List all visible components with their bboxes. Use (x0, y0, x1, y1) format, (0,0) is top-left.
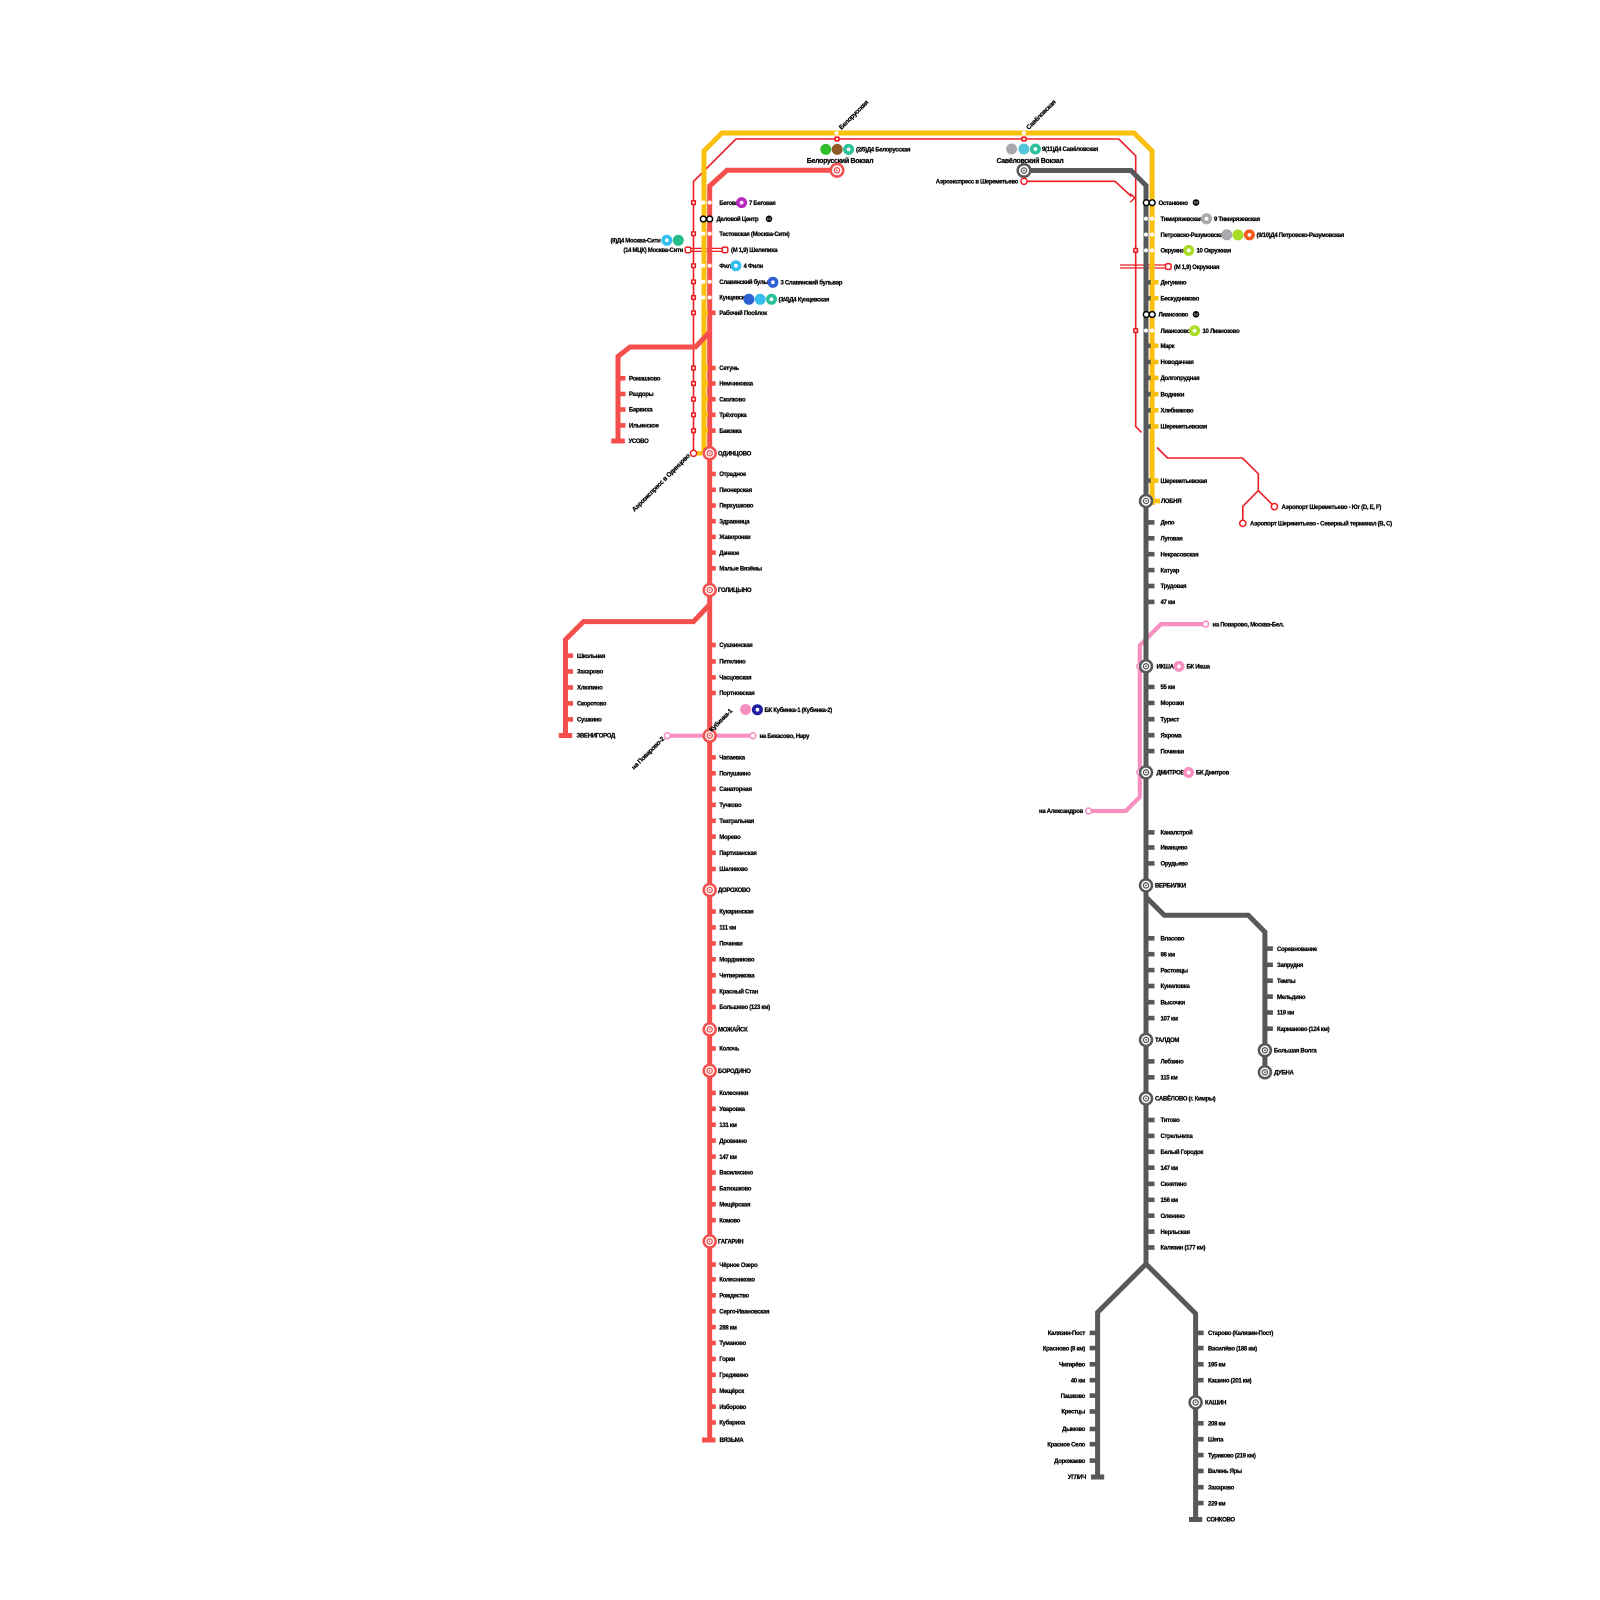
svg-text:Власово: Власово (1161, 937, 1185, 943)
svg-text:Калязин-Пост: Калязин-Пост (1048, 1331, 1086, 1337)
svg-text:Здравница: Здравница (719, 519, 750, 525)
svg-text:Трудовая: Трудовая (1161, 584, 1188, 590)
station MOZHAYSK (704, 1023, 748, 1035)
station Растовцы (1146, 968, 1188, 975)
station KUBINKA-1 (704, 730, 716, 742)
station Каналстрой (1146, 830, 1193, 837)
svg-text:Карманово (124 км): Карманово (124 км) (1277, 1027, 1330, 1033)
station DUBNA (1259, 1066, 1295, 1078)
station Петровско-Разумовская (1144, 233, 1227, 239)
svg-text:Колесники: Колесники (719, 1091, 748, 1097)
svg-text:40 км: 40 км (1071, 1378, 1086, 1384)
svg-text:Калязин (177 км): Калязин (177 км) (1161, 1246, 1206, 1252)
svg-text:Стрельчиха: Стрельчиха (1161, 1134, 1194, 1140)
svg-text:Сетунь: Сетунь (719, 366, 739, 372)
station Мещёрская (709, 1202, 751, 1209)
svg-text:Дорожаево: Дорожаево (1054, 1459, 1085, 1465)
station Изборово (709, 1404, 747, 1411)
svg-text:3 Славянский бульвар: 3 Славянский бульвар (781, 280, 843, 287)
station Мельдино (1265, 994, 1306, 1001)
svg-text:156 км: 156 км (1161, 1198, 1179, 1204)
svg-text:Титово: Титово (1161, 1118, 1181, 1124)
svg-text:ВЯЗЬМА: ВЯЗЬМА (720, 1438, 745, 1444)
station Петелино (709, 659, 747, 666)
svg-text:Яхрома: Яхрома (1161, 733, 1183, 739)
svg-text:БК Дмитров: БК Дмитров (1196, 771, 1230, 777)
svg-text:Тимирязевская: Тимирязевская (1161, 217, 1203, 223)
station Кукаринская (709, 909, 755, 916)
svg-text:Портновская: Портновская (719, 691, 755, 697)
station Беговая (691, 200, 742, 207)
svg-text:Четверикова: Четверикова (719, 973, 755, 979)
svg-text:ГАГАРИН: ГАГАРИН (718, 1240, 743, 1246)
svg-text:Красный Стан: Красный Стан (719, 988, 758, 995)
svg-text:Василисино: Василисино (719, 1171, 753, 1177)
station Оленино (1146, 1213, 1185, 1220)
station Валень Яры (1196, 1469, 1242, 1476)
svg-text:Петелино: Петелино (719, 660, 746, 666)
Zvenigorod branch (red) (566, 605, 710, 734)
Savyolovsky Vokzal station circle (1018, 164, 1031, 177)
svg-text:Большево (123 км): Большево (123 км) (719, 1005, 770, 1011)
station Серго-Ивановская (709, 1309, 770, 1316)
svg-text:Мельдино: Мельдино (1277, 995, 1306, 1001)
svg-text:Театральная: Театральная (719, 819, 754, 825)
svg-text:Орудьево: Орудьево (1161, 862, 1189, 868)
station Соревнование (1265, 946, 1318, 953)
svg-text:Сколково: Сколково (719, 397, 746, 403)
svg-text:Дровнино: Дровнино (719, 1139, 747, 1145)
station Иванцево (1146, 845, 1188, 852)
station Кунцевская (691, 295, 752, 302)
svg-text:ДМИТРОВ: ДМИТРОВ (1157, 771, 1186, 777)
svg-text:Куниловка: Куниловка (1161, 984, 1191, 990)
station Темпы (1265, 978, 1296, 985)
D1 stop Belorusskaya (white dot on yellow) (835, 131, 839, 135)
svg-text:ТАЛДОМ: ТАЛДОМ (1155, 1038, 1179, 1044)
svg-text:Растовцы: Растовцы (1161, 968, 1188, 974)
station 98 км (1146, 952, 1176, 959)
station Тимирязевская (1144, 217, 1203, 223)
station Василёво (186 км) (1196, 1346, 1258, 1353)
svg-text:Дымово: Дымово (1062, 1427, 1086, 1433)
svg-text:115 км: 115 км (1161, 1076, 1179, 1082)
station Дегунино (1146, 280, 1187, 287)
airport terminus north (1240, 520, 1246, 526)
station Власово (1146, 936, 1185, 943)
station Окружная (1133, 248, 1188, 255)
station Рождество (709, 1293, 750, 1300)
svg-text:Партизанская: Партизанская (719, 851, 757, 857)
svg-text:Останкино: Останкино (1159, 201, 1189, 207)
svg-text:Дегунино: Дегунино (1161, 281, 1187, 287)
svg-text:107 км: 107 км (1161, 1016, 1179, 1022)
station Туриково (219 км) (1196, 1453, 1256, 1460)
station Горки (709, 1357, 736, 1364)
pink ring terminus northeast (1203, 621, 1209, 627)
svg-text:10 Лианозово: 10 Лианозово (1203, 329, 1241, 335)
svg-text:(М 1,9) Шелепиха: (М 1,9) Шелепиха (731, 248, 778, 254)
station Кашино (201 км) (1196, 1378, 1252, 1385)
station Большево (123 км) (709, 1005, 771, 1012)
svg-text:Шаликово: Шаликово (719, 867, 748, 873)
station Славянский бульвар (691, 279, 777, 286)
ring transfer icons Kubinka (740, 704, 751, 715)
station Ромашково (618, 376, 661, 383)
station Колесниково (709, 1277, 756, 1284)
metro icons Kuntsevskaya (743, 294, 754, 305)
svg-text:Малые Вязёмы: Малые Вязёмы (719, 567, 762, 573)
station Lianozovo metro (1143, 312, 1188, 319)
station Трёхгорка (691, 412, 748, 419)
station DOROKHOVO (704, 884, 751, 896)
svg-text:Высочки: Высочки (1161, 1000, 1186, 1006)
interchange symbol Okruzhnaya (double bars) (1120, 264, 1165, 266)
station Запрудня (1265, 963, 1304, 970)
svg-text:Новодачная: Новодачная (1161, 360, 1195, 366)
svg-text:БК Икша: БК Икша (1187, 665, 1211, 671)
svg-text:(3/4)Д4 Кунцевская: (3/4)Д4 Кунцевская (779, 298, 830, 304)
svg-text:Аэроэкспресс в Шереметьево: Аэроэкспресс в Шереметьево (936, 180, 1019, 186)
metro icon 3 Slavyansky bulvar (767, 277, 778, 288)
station 55 км (1146, 685, 1176, 692)
station Куниловка (1146, 984, 1191, 991)
station 47 км (1146, 600, 1176, 607)
station Тестовская (Москва-Сити) (691, 231, 790, 238)
svg-text:Петровско-Разумовская: Петровско-Разумовская (1161, 233, 1227, 239)
svg-text:Отрадное: Отрадное (719, 472, 747, 478)
svg-text:Аэропорт Шереметьево - Юг (D,: Аэропорт Шереметьево - Юг (D, E, F) (1282, 505, 1382, 511)
svg-text:Туриково (219 км): Туриково (219 км) (1208, 1453, 1256, 1459)
svg-text:Мордвиново: Мордвиново (719, 958, 755, 964)
station Delovoy Tsentr (700, 216, 759, 223)
station Трудовая (1146, 584, 1187, 591)
station SAVYOLOVO (1140, 1093, 1216, 1105)
svg-text:Сушкино: Сушкино (577, 718, 602, 724)
station GAGARIN (704, 1235, 744, 1247)
station Долгопрудная (1146, 376, 1200, 383)
station Водники (1146, 392, 1185, 399)
svg-text:Санаторная: Санаторная (719, 787, 752, 793)
station Шепа (1196, 1437, 1224, 1444)
interchange squares Moskva-City (685, 247, 691, 253)
station Рабочий Посёлок (691, 310, 767, 317)
station Хлебниково (1146, 408, 1194, 415)
svg-text:Каналстрой: Каналстрой (1161, 830, 1194, 837)
svg-text:Баковка: Баковка (719, 429, 742, 435)
station LOBNYA (1140, 495, 1181, 507)
station Гредякино (709, 1373, 749, 1380)
station DMITROV (1137, 766, 1186, 778)
svg-text:Хлюпино: Хлюпино (577, 686, 603, 692)
station 115 км (1146, 1075, 1178, 1082)
station Ostankino (1143, 200, 1188, 207)
station Комово (709, 1218, 741, 1225)
svg-text:Пашково: Пашково (1061, 1394, 1086, 1400)
station Отрадное (709, 472, 747, 479)
svg-text:Барвиха: Барвиха (629, 408, 653, 414)
station Шереметьевская (1146, 424, 1208, 431)
station 156 км (1146, 1198, 1179, 1205)
interchange symbol Moskva-City (double bars) (692, 247, 722, 249)
station Бескудниково (1146, 296, 1200, 303)
station Дымово (1062, 1427, 1098, 1434)
D1 stop Savyolovskaya (white dot on yellow) (1022, 131, 1026, 135)
svg-text:Комово: Комово (719, 1218, 740, 1224)
station Здравница (709, 519, 751, 526)
station Чапаевка (709, 755, 746, 762)
svg-text:288 км: 288 км (719, 1325, 737, 1331)
fork to Uglich (gray) (1098, 1264, 1146, 1475)
svg-text:Долгопрудная: Долгопрудная (1161, 376, 1201, 382)
svg-text:Ромашково: Ромашково (629, 377, 661, 383)
svg-text:147 км: 147 км (1161, 1166, 1179, 1172)
station Партизанская (709, 851, 758, 858)
Belorussky Vokzal station circle (831, 164, 844, 177)
svg-text:Водники: Водники (1161, 392, 1185, 398)
station Сетунь (691, 365, 740, 372)
station 119 км (1265, 1010, 1295, 1017)
svg-text:(9/10)Д4 Петровско-Разумовская: (9/10)Д4 Петровско-Разумовская (1257, 233, 1345, 239)
station Шаликово (709, 867, 749, 874)
aeroexpress line left (thin red) (694, 139, 737, 450)
airport terminus south (1271, 504, 1277, 510)
station Мордвиново (709, 957, 755, 964)
svg-text:Кашино (201 км): Кашино (201 км) (1208, 1378, 1252, 1384)
station Перхушково (709, 503, 754, 510)
svg-text:Деловой Центр: Деловой Центр (717, 216, 759, 223)
station Фили (691, 263, 735, 270)
station Сушкинская (709, 643, 754, 650)
station Санаторная (709, 787, 753, 794)
station Морозки (1146, 701, 1185, 708)
svg-text:Чапаевка: Чапаевка (719, 756, 745, 762)
station Красное Село (1047, 1442, 1097, 1449)
station Колесники (709, 1091, 749, 1098)
svg-text:Перхушково: Перхушково (719, 504, 753, 510)
aeroexpress terminus Odintsovo (690, 450, 696, 456)
svg-text:Белый Городок: Белый Городок (1161, 1149, 1204, 1156)
aeroexpress stop at Belorusskaya (834, 136, 839, 141)
station Театральная (709, 819, 755, 826)
station Ильинское (618, 423, 660, 430)
station BORODINO (704, 1065, 752, 1077)
station Белый Городок (1146, 1149, 1203, 1156)
station Калязин (177 км) (1146, 1245, 1205, 1252)
svg-text:Трёхгорка: Трёхгорка (719, 413, 747, 419)
svg-text:Катуар: Катуар (1161, 568, 1180, 574)
svg-text:Кукаринская: Кукаринская (719, 910, 754, 916)
svg-text:Тестовская (Москва-Сити): Тестовская (Москва-Сити) (719, 232, 789, 238)
svg-text:ОДИНЦОВО: ОДИНЦОВО (718, 452, 752, 458)
station Василисино (709, 1170, 754, 1177)
svg-text:Гредякино: Гредякино (719, 1373, 748, 1379)
svg-text:ИКША: ИКША (1157, 665, 1175, 671)
svg-text:Турист: Турист (1161, 717, 1180, 723)
svg-text:на Бекасово, Нару: на Бекасово, Нару (760, 734, 811, 740)
svg-text:Немчиновка: Немчиновка (719, 382, 753, 388)
station Немчиновка (691, 381, 754, 388)
svg-text:Хлебниково: Хлебниково (1161, 408, 1195, 415)
svg-text:Изборово: Изборово (719, 1404, 746, 1411)
station 147 км (1146, 1165, 1179, 1172)
svg-text:СОНКОВО: СОНКОВО (1207, 1518, 1236, 1524)
svg-text:Лианозово: Лианозово (1161, 329, 1191, 335)
station Починки (1146, 749, 1184, 756)
svg-text:Марк: Марк (1161, 344, 1175, 350)
aeroexpress terminus at Savyolovsky (1021, 178, 1027, 184)
svg-text:119 км: 119 км (1277, 1011, 1295, 1017)
station 147 км (709, 1154, 738, 1161)
metro icons Savyolovskaya (1006, 144, 1017, 155)
svg-text:Иванцево: Иванцево (1161, 846, 1188, 852)
station Некрасовская (1146, 552, 1199, 559)
svg-text:Чёрное Озеро: Чёрное Озеро (719, 1263, 758, 1269)
svg-text:Некрасовская: Некрасовская (1161, 552, 1200, 558)
svg-text:Захарово: Захарово (577, 670, 604, 676)
station VERBILKI (1140, 879, 1186, 891)
svg-text:131 км: 131 км (719, 1123, 737, 1129)
station Крестцы (1061, 1409, 1097, 1416)
station Хлюпино (566, 685, 604, 692)
station Дровнино (709, 1138, 748, 1145)
svg-text:М: М (767, 217, 771, 222)
station 229 км (1196, 1501, 1227, 1508)
station Титово (1146, 1118, 1180, 1125)
station Починки (709, 941, 744, 948)
svg-text:147 км: 147 км (719, 1155, 737, 1161)
svg-text:4 Фили: 4 Фили (744, 264, 764, 270)
line D1 yellow (704, 133, 1152, 505)
station GOLITSYNO (704, 584, 752, 596)
pink ring terminus east (750, 733, 756, 739)
metro icon 9 Timiryazevskaya (1201, 213, 1212, 224)
svg-text:Луговая: Луговая (1161, 537, 1184, 543)
svg-text:Савёловский Вокзал: Савёловский Вокзал (996, 157, 1063, 165)
station 208 км (1196, 1421, 1227, 1428)
svg-text:Рабочий Посёлок: Рабочий Посёлок (719, 310, 767, 317)
svg-text:УГЛИЧ: УГЛИЧ (1068, 1475, 1086, 1481)
svg-text:Раздоры: Раздоры (629, 392, 654, 398)
station Нерльская (1146, 1229, 1190, 1236)
Zvenigorod terminal bar (559, 733, 572, 738)
svg-text:208 км: 208 км (1208, 1422, 1226, 1428)
metro icon 4 Fili (730, 260, 741, 271)
station Пашково (1061, 1393, 1098, 1400)
station TALDOM (1140, 1034, 1179, 1046)
station Захарово (566, 669, 604, 676)
Usovo branch (red) (618, 332, 710, 439)
svg-text:Депо: Депо (1161, 521, 1175, 527)
station Жаворонки (709, 535, 751, 542)
svg-text:Пионерская: Пионерская (719, 488, 752, 494)
svg-text:47 км: 47 км (1161, 600, 1176, 606)
metro icon 10 Okruzhnaya (1183, 245, 1194, 256)
svg-text:(2/5)Д4 Белорусская: (2/5)Д4 Белорусская (856, 148, 911, 154)
station Карманово (124 км) (1265, 1026, 1330, 1033)
station Батюшково (709, 1186, 752, 1193)
svg-text:9 Тимирязевская: 9 Тимирязевская (1214, 217, 1261, 223)
station 131 км (709, 1122, 738, 1129)
svg-text:Валень Яры: Валень Яры (1208, 1469, 1242, 1475)
station Дорожаево (1054, 1458, 1097, 1465)
station 40 км (1071, 1378, 1098, 1385)
svg-text:Морозки: Морозки (1161, 701, 1185, 707)
aeroexpress from Savyolovsky (thin red) (1028, 181, 1132, 196)
aeroexpress Sheremetyevo airport branch (thin red) (1157, 448, 1258, 521)
station Шереметьевская (1146, 478, 1208, 485)
svg-text:Крестцы: Крестцы (1061, 1410, 1085, 1416)
icons Moskva-City (661, 235, 672, 246)
svg-text:229 км: 229 км (1208, 1501, 1226, 1507)
metro icon 10 Lianozovo (1189, 325, 1200, 336)
station Уваровка (709, 1107, 746, 1114)
station Полушкино (709, 771, 752, 778)
svg-text:УСОВО: УСОВО (629, 439, 650, 445)
svg-text:195 км: 195 км (1208, 1363, 1226, 1369)
svg-text:ДУБНА: ДУБНА (1274, 1071, 1295, 1077)
svg-text:ВЕРБИЛКИ: ВЕРБИЛКИ (1155, 884, 1186, 890)
svg-text:Лебзино: Лебзино (1161, 1059, 1185, 1066)
pink ring terminus to Aleksandrov (1086, 808, 1092, 814)
station 288 км (709, 1325, 738, 1332)
svg-text:Шереметьевская: Шереметьевская (1161, 479, 1208, 485)
station Захарово (1196, 1485, 1235, 1492)
Dubna branch (gray) (1146, 897, 1265, 1072)
svg-text:БОРОДИНО: БОРОДИНО (718, 1069, 751, 1075)
svg-text:ЛОБНЯ: ЛОБНЯ (1161, 499, 1181, 505)
svg-text:Туманово: Туманово (719, 1341, 746, 1347)
metro icons Belorusskaya (820, 144, 831, 155)
svg-text:Полушкино: Полушкино (719, 772, 751, 778)
svg-text:САВЁЛОВО (г. Кимры): САВЁЛОВО (г. Кимры) (1155, 1096, 1216, 1103)
svg-text:МОЖАЙСК: МОЖАЙСК (718, 1026, 748, 1034)
station Туманово (709, 1341, 747, 1348)
station Кубариха (709, 1420, 746, 1427)
merge arrowhead (1130, 194, 1135, 203)
svg-text:ДОРОХОВО: ДОРОХОВО (718, 888, 751, 894)
svg-text:Уваровка: Уваровка (719, 1107, 745, 1113)
station KASHIN (1190, 1396, 1227, 1408)
svg-text:Дачное: Дачное (719, 551, 740, 557)
station Чигирёво (1059, 1362, 1098, 1369)
station Часцовская (709, 675, 753, 682)
station Колочь (709, 1046, 740, 1053)
station Депо (1146, 520, 1175, 527)
interchange square Okruzhnaya (1166, 264, 1172, 270)
svg-text:Кубариха: Кубариха (719, 1420, 746, 1427)
station Красный Стан (709, 988, 759, 995)
svg-text:ГОЛИЦЫНО: ГОЛИЦЫНО (718, 588, 752, 594)
svg-text:Колесниково: Колесниково (719, 1278, 755, 1284)
station Портновская (709, 691, 756, 698)
svg-text:КАШИН: КАШИН (1205, 1401, 1226, 1407)
svg-text:Шепа: Шепа (1208, 1437, 1224, 1443)
station Дачное (709, 550, 741, 557)
station Мещёрск (709, 1388, 745, 1395)
svg-text:Скнятино: Скнятино (1161, 1182, 1188, 1188)
station Скнятино (1146, 1182, 1187, 1189)
svg-text:Мещёрская: Мещёрская (719, 1203, 751, 1209)
svg-text:Сушкинская: Сушкинская (719, 643, 753, 649)
fork to Sonkovo (gray) (1146, 1264, 1196, 1518)
svg-text:БК Кубинка-1 (Кубинка-2): БК Кубинка-1 (Кубинка-2) (765, 707, 833, 714)
svg-text:Школьная: Школьная (577, 654, 606, 660)
svg-text:Мещёрск: Мещёрск (719, 1389, 744, 1395)
svg-text:Лианозово: Лианозово (1159, 313, 1189, 319)
Vyazma terminal bar (702, 1438, 716, 1443)
svg-text:Нерльская: Нерльская (1161, 1230, 1191, 1236)
